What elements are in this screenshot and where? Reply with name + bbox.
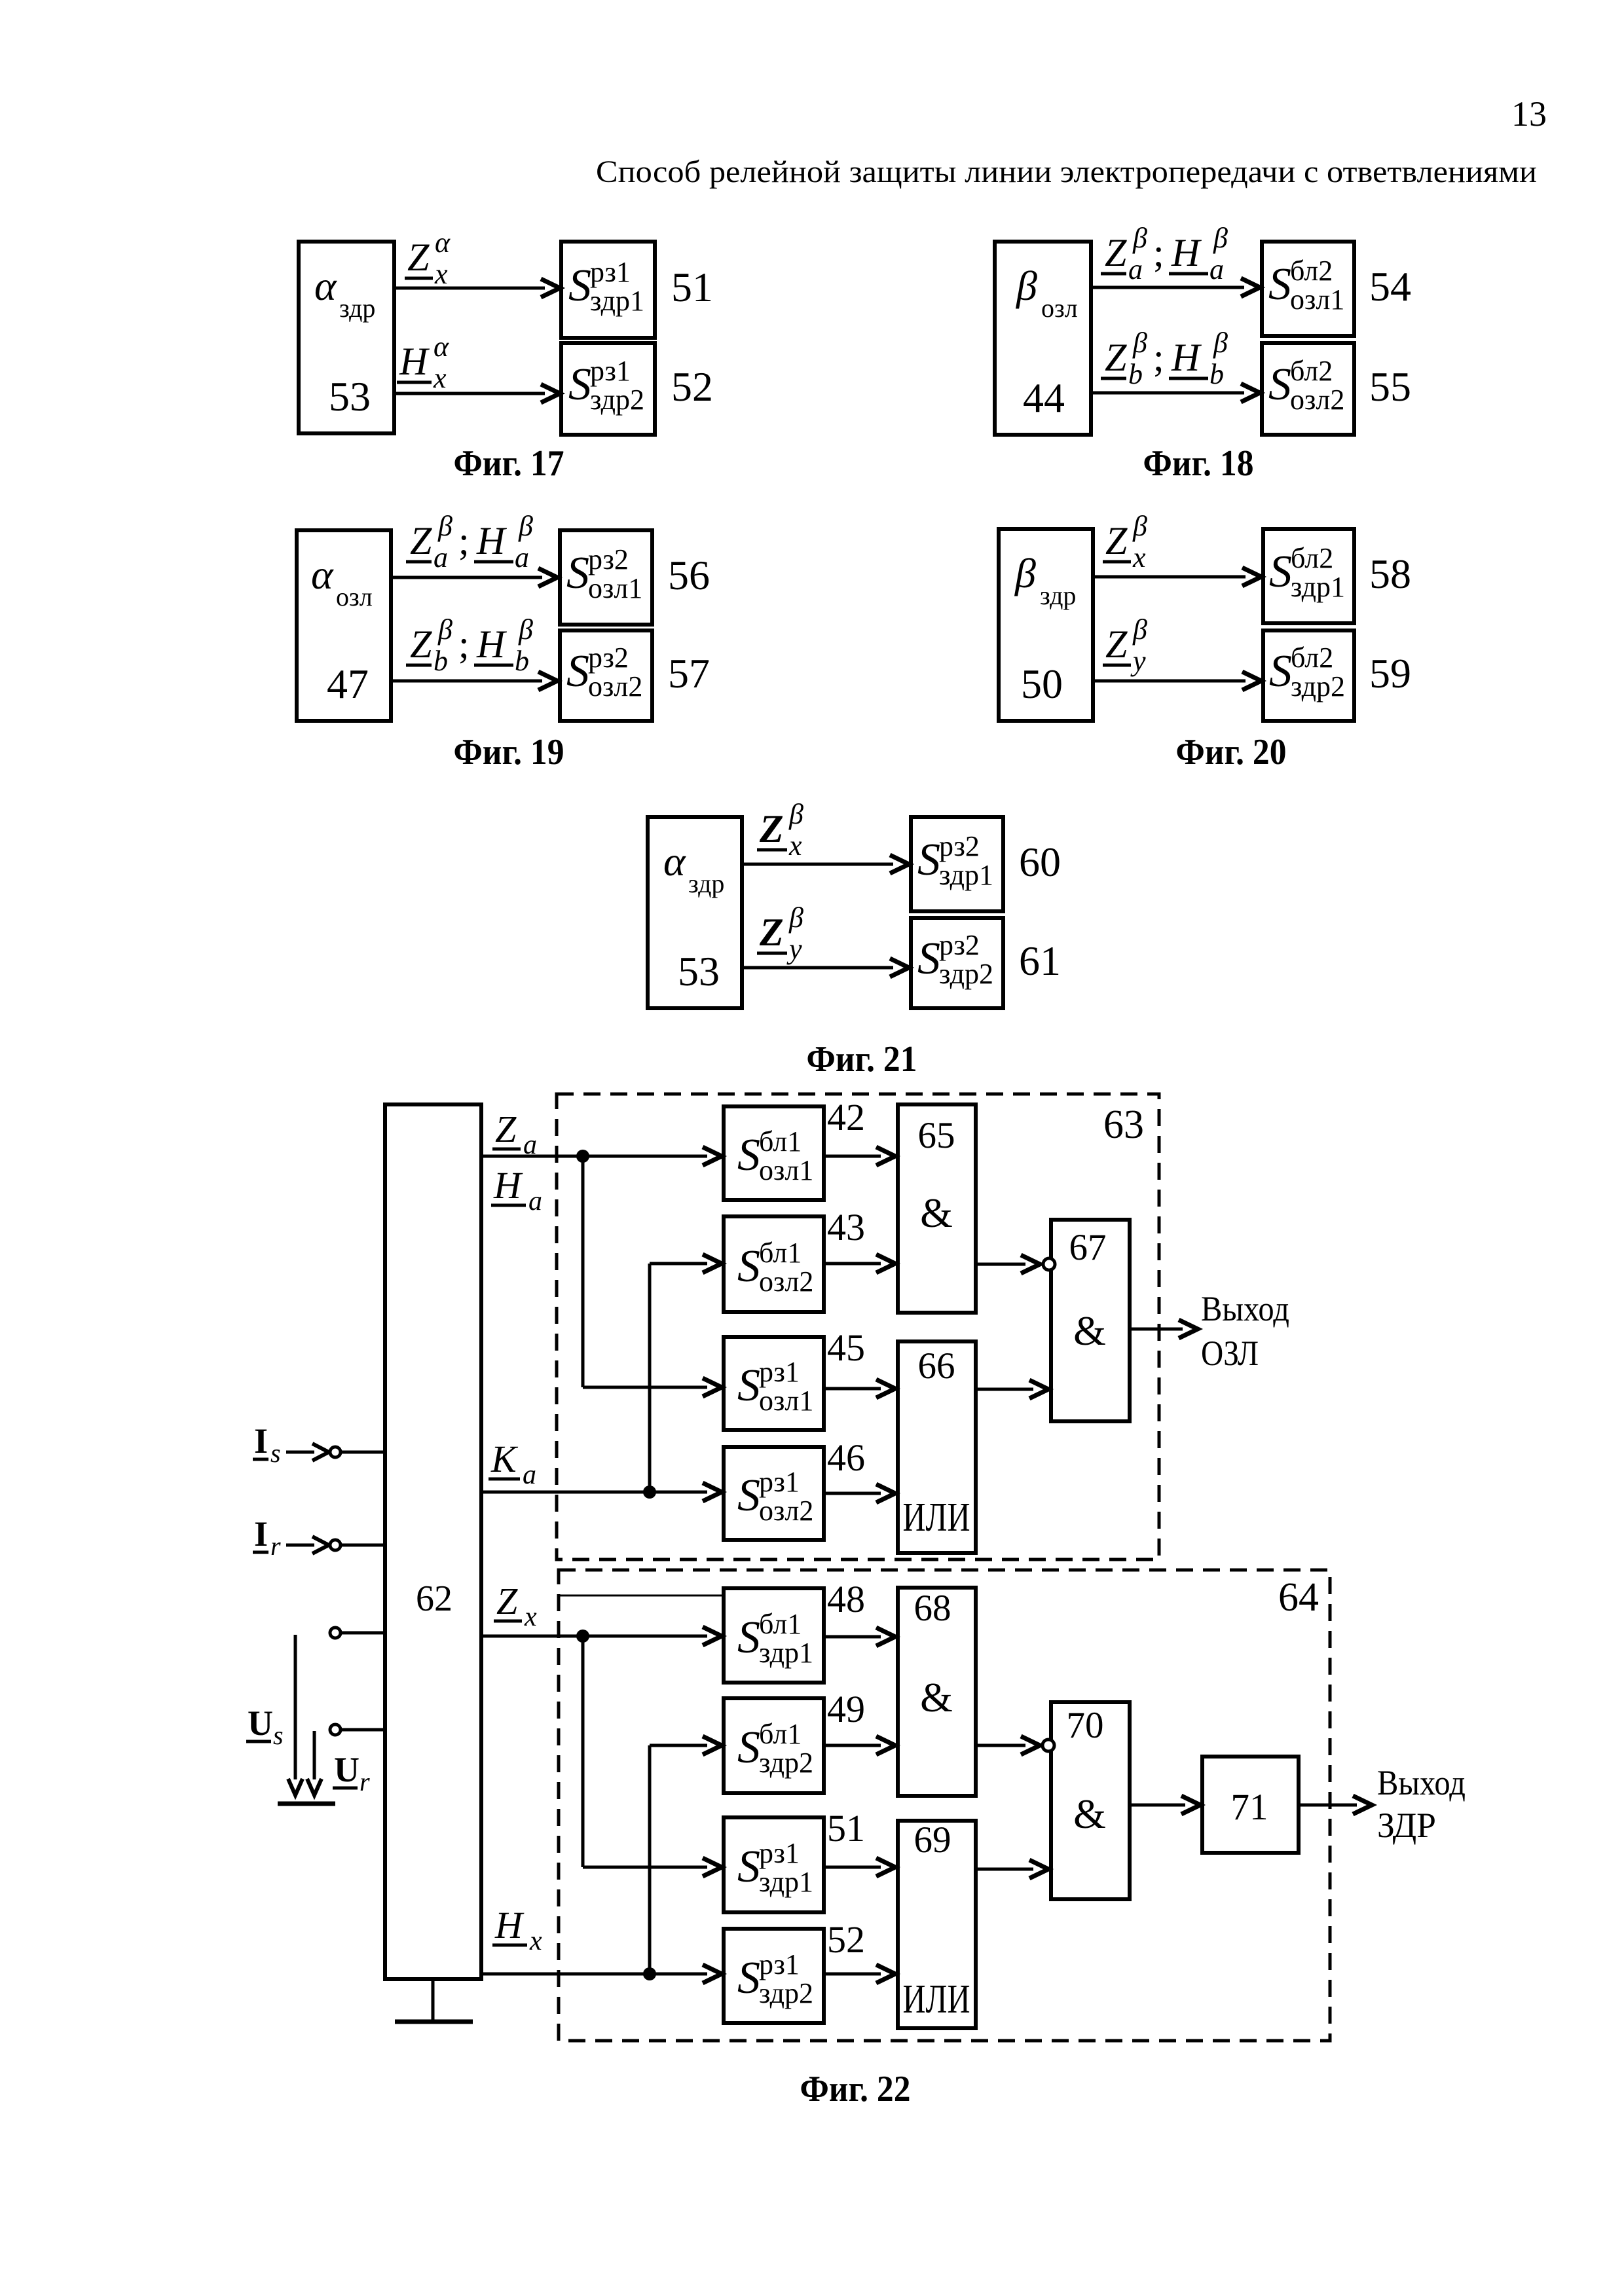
svg-text:13: 13 bbox=[1511, 94, 1547, 134]
svg-text:U: U bbox=[248, 1704, 273, 1743]
svg-text:здр1: здр1 bbox=[759, 1866, 813, 1898]
svg-text:Z: Z bbox=[410, 519, 432, 562]
svg-text:β: β bbox=[1132, 510, 1147, 542]
svg-text:s: s bbox=[270, 1438, 281, 1468]
svg-text:a: a bbox=[1128, 253, 1143, 285]
svg-text:рз2: рз2 bbox=[939, 830, 980, 862]
svg-text:S: S bbox=[1269, 547, 1292, 597]
svg-text:x: x bbox=[434, 258, 448, 290]
svg-text:α: α bbox=[435, 227, 451, 259]
svg-text:x: x bbox=[433, 362, 447, 394]
svg-text:бл1: бл1 bbox=[759, 1125, 802, 1157]
svg-text:Выход: Выход bbox=[1377, 1763, 1466, 1802]
svg-text:Фиг. 17: Фиг. 17 bbox=[454, 443, 564, 484]
svg-text:озл: озл bbox=[1041, 293, 1078, 323]
svg-text:K: K bbox=[490, 1438, 519, 1480]
svg-text:Фиг. 22: Фиг. 22 bbox=[800, 2069, 911, 2109]
svg-text:70: 70 bbox=[1067, 1705, 1104, 1746]
svg-text:Z: Z bbox=[1105, 623, 1128, 666]
svg-text:β: β bbox=[1132, 613, 1147, 646]
svg-text:β: β bbox=[518, 510, 533, 542]
svg-text:51: 51 bbox=[827, 1807, 865, 1850]
svg-text:Z: Z bbox=[410, 623, 432, 666]
svg-text:52: 52 bbox=[671, 363, 713, 410]
svg-text:рз1: рз1 bbox=[759, 1466, 800, 1498]
svg-text:S: S bbox=[917, 835, 940, 885]
svg-text:Фиг. 20: Фиг. 20 bbox=[1176, 732, 1287, 773]
svg-text:a: a bbox=[515, 541, 529, 574]
svg-text:x: x bbox=[1132, 541, 1146, 574]
svg-text:S: S bbox=[917, 934, 940, 984]
svg-text:a: a bbox=[434, 541, 448, 574]
svg-text:H: H bbox=[476, 623, 507, 666]
svg-text:S: S bbox=[737, 1241, 760, 1292]
svg-text:озл1: озл1 bbox=[1290, 283, 1344, 316]
svg-text:71: 71 bbox=[1231, 1787, 1268, 1828]
svg-text:47: 47 bbox=[327, 661, 369, 707]
svg-text:62: 62 bbox=[416, 1578, 452, 1619]
svg-text:59: 59 bbox=[1369, 650, 1411, 697]
svg-text:β: β bbox=[1015, 263, 1037, 309]
svg-text:S: S bbox=[568, 359, 591, 410]
svg-text:β: β bbox=[1213, 327, 1228, 359]
svg-text:64: 64 bbox=[1278, 1575, 1319, 1620]
svg-text:61: 61 bbox=[1019, 938, 1061, 984]
svg-text:;: ; bbox=[1153, 336, 1164, 379]
svg-text:b: b bbox=[1128, 358, 1143, 390]
svg-text:;: ; bbox=[1153, 231, 1164, 274]
svg-text:a: a bbox=[1209, 253, 1224, 285]
svg-text:&: & bbox=[1073, 1307, 1106, 1354]
svg-text:рз1: рз1 bbox=[590, 355, 631, 387]
svg-text:ИЛИ: ИЛИ bbox=[903, 1977, 970, 2022]
svg-text:ОЗЛ: ОЗЛ bbox=[1201, 1334, 1259, 1373]
svg-text:67: 67 bbox=[1069, 1227, 1107, 1268]
svg-text:рз2: рз2 bbox=[588, 543, 629, 575]
svg-text:b: b bbox=[1209, 358, 1224, 390]
svg-text:α: α bbox=[311, 551, 334, 598]
svg-text:бл1: бл1 bbox=[759, 1237, 802, 1269]
svg-text:Выход: Выход bbox=[1201, 1289, 1289, 1328]
svg-text:a: a bbox=[528, 1186, 542, 1216]
svg-text:53: 53 bbox=[678, 948, 720, 994]
svg-text:бл1: бл1 bbox=[759, 1718, 802, 1750]
svg-text:45: 45 bbox=[827, 1326, 865, 1369]
svg-text:рз1: рз1 bbox=[759, 1356, 800, 1388]
svg-text:S: S bbox=[737, 1842, 760, 1892]
svg-text:69: 69 bbox=[914, 1819, 951, 1861]
svg-text:S: S bbox=[568, 261, 591, 311]
svg-text:β: β bbox=[437, 510, 452, 542]
svg-text:68: 68 bbox=[914, 1588, 951, 1629]
svg-text:53: 53 bbox=[329, 373, 371, 420]
svg-text:y: y bbox=[1130, 645, 1146, 677]
svg-text:51: 51 bbox=[671, 264, 713, 310]
svg-text:S: S bbox=[737, 1360, 760, 1411]
svg-text:H: H bbox=[476, 519, 507, 562]
svg-text:42: 42 bbox=[827, 1096, 865, 1139]
svg-text:y: y bbox=[786, 933, 802, 965]
svg-text:a: a bbox=[523, 1460, 536, 1490]
svg-text:β: β bbox=[788, 902, 803, 934]
svg-text:65: 65 bbox=[918, 1115, 955, 1156]
svg-text:Z: Z bbox=[1105, 231, 1127, 274]
svg-text:57: 57 bbox=[668, 650, 710, 697]
svg-text:озл2: озл2 bbox=[588, 670, 642, 702]
svg-text:здр2: здр2 bbox=[590, 384, 644, 416]
svg-text:Способ релейной защиты линии э: Способ релейной защиты линии электропере… bbox=[596, 155, 1537, 189]
svg-text:ИЛИ: ИЛИ bbox=[903, 1495, 970, 1540]
svg-text:S: S bbox=[1268, 359, 1291, 410]
svg-text:β: β bbox=[788, 798, 803, 830]
svg-text:рз2: рз2 bbox=[939, 929, 980, 961]
svg-text:здр2: здр2 bbox=[759, 1977, 813, 2009]
svg-text:b: b bbox=[434, 645, 448, 677]
svg-text:49: 49 bbox=[827, 1688, 865, 1730]
svg-text:Фиг. 21: Фиг. 21 bbox=[807, 1039, 917, 1080]
svg-text:β: β bbox=[1132, 222, 1147, 254]
svg-text:здр: здр bbox=[339, 293, 375, 323]
svg-text:S: S bbox=[566, 548, 589, 598]
svg-text:&: & bbox=[920, 1674, 953, 1721]
svg-text:x: x bbox=[524, 1602, 537, 1632]
svg-text:S: S bbox=[737, 1470, 760, 1521]
svg-text:54: 54 bbox=[1369, 263, 1411, 310]
svg-text:S: S bbox=[1268, 259, 1291, 310]
svg-text:Фиг. 19: Фиг. 19 bbox=[454, 732, 564, 773]
svg-text:52: 52 bbox=[827, 1918, 865, 1961]
svg-text:озл1: озл1 bbox=[759, 1154, 813, 1186]
svg-text:60: 60 bbox=[1019, 839, 1061, 885]
svg-text:S: S bbox=[737, 1722, 760, 1773]
svg-text:здр: здр bbox=[688, 869, 724, 898]
svg-text:Z: Z bbox=[1105, 519, 1128, 562]
svg-text:;: ; bbox=[458, 623, 470, 666]
svg-text:66: 66 bbox=[918, 1345, 955, 1387]
svg-text:Z: Z bbox=[496, 1580, 518, 1622]
svg-text:бл2: бл2 bbox=[1290, 355, 1333, 387]
svg-text:r: r bbox=[270, 1531, 281, 1561]
svg-text:ЗДР: ЗДР bbox=[1377, 1806, 1436, 1845]
svg-text:α: α bbox=[663, 838, 686, 884]
svg-text:озл2: озл2 bbox=[1290, 384, 1344, 416]
svg-text:;: ; bbox=[458, 519, 470, 562]
svg-text:s: s bbox=[273, 1721, 284, 1750]
svg-text:S: S bbox=[737, 1613, 760, 1663]
svg-text:&: & bbox=[920, 1190, 953, 1236]
svg-text:b: b bbox=[515, 645, 529, 677]
svg-text:рз1: рз1 bbox=[759, 1837, 800, 1869]
svg-text:β: β bbox=[1213, 222, 1228, 254]
svg-text:I: I bbox=[254, 1421, 268, 1461]
svg-text:S: S bbox=[566, 646, 589, 697]
svg-text:H: H bbox=[493, 1164, 523, 1207]
svg-text:озл: озл bbox=[336, 582, 373, 611]
svg-text:озл1: озл1 bbox=[759, 1385, 813, 1417]
svg-text:Z: Z bbox=[407, 236, 430, 279]
svg-text:U: U bbox=[334, 1750, 360, 1789]
svg-text:Z: Z bbox=[495, 1108, 517, 1150]
svg-text:здр1: здр1 bbox=[590, 285, 644, 317]
svg-text:β: β bbox=[1132, 327, 1147, 359]
svg-text:Фиг. 18: Фиг. 18 bbox=[1143, 443, 1254, 484]
svg-text:бл1: бл1 bbox=[759, 1608, 802, 1640]
svg-text:здр2: здр2 bbox=[759, 1747, 813, 1779]
svg-text:&: & bbox=[1073, 1791, 1106, 1837]
svg-text:S: S bbox=[1269, 646, 1292, 697]
svg-text:здр: здр bbox=[1040, 581, 1076, 610]
svg-text:здр1: здр1 bbox=[939, 859, 993, 891]
svg-text:рз1: рз1 bbox=[759, 1948, 800, 1980]
svg-text:S: S bbox=[737, 1953, 760, 2003]
svg-text:озл2: озл2 bbox=[759, 1495, 813, 1527]
svg-text:48: 48 bbox=[827, 1578, 865, 1620]
svg-text:50: 50 bbox=[1021, 661, 1063, 707]
svg-text:рз1: рз1 bbox=[590, 256, 631, 288]
svg-text:бл2: бл2 bbox=[1290, 255, 1333, 287]
svg-text:58: 58 bbox=[1369, 551, 1411, 597]
svg-text:α: α bbox=[314, 263, 337, 309]
svg-text:55: 55 bbox=[1369, 363, 1411, 410]
svg-text:Z: Z bbox=[759, 807, 784, 850]
svg-text:β: β bbox=[1014, 550, 1036, 596]
svg-text:здр2: здр2 bbox=[939, 958, 993, 990]
svg-text:здр1: здр1 bbox=[1291, 571, 1345, 603]
svg-text:44: 44 bbox=[1023, 374, 1065, 421]
svg-text:x: x bbox=[788, 829, 802, 862]
svg-text:H: H bbox=[1171, 336, 1202, 379]
svg-text:I: I bbox=[254, 1514, 268, 1554]
svg-text:бл2: бл2 bbox=[1291, 542, 1333, 574]
svg-text:β: β bbox=[437, 613, 452, 646]
svg-text:x: x bbox=[529, 1926, 542, 1956]
svg-text:56: 56 bbox=[668, 552, 710, 598]
svg-text:46: 46 bbox=[827, 1436, 865, 1479]
svg-text:Z: Z bbox=[759, 911, 784, 954]
svg-text:Z: Z bbox=[1105, 336, 1127, 379]
svg-text:β: β bbox=[518, 613, 533, 646]
svg-text:рз2: рз2 bbox=[588, 642, 629, 674]
svg-text:H: H bbox=[494, 1904, 525, 1946]
svg-text:r: r bbox=[360, 1767, 370, 1796]
svg-text:63: 63 bbox=[1103, 1102, 1144, 1147]
svg-text:бл2: бл2 bbox=[1291, 642, 1333, 674]
svg-text:S: S bbox=[737, 1130, 760, 1180]
svg-text:43: 43 bbox=[827, 1206, 865, 1248]
svg-text:озл1: озл1 bbox=[588, 572, 642, 604]
svg-text:H: H bbox=[399, 340, 430, 383]
svg-text:озл2: озл2 bbox=[759, 1266, 813, 1298]
svg-text:α: α bbox=[434, 331, 449, 363]
svg-text:здр1: здр1 bbox=[759, 1637, 813, 1669]
svg-text:здр2: здр2 bbox=[1291, 670, 1345, 702]
svg-text:H: H bbox=[1171, 231, 1202, 274]
